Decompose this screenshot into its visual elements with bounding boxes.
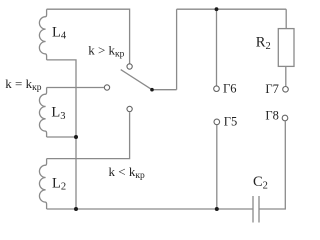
wire L3 bottom to bus junction bbox=[47, 136, 76, 138]
svg-text:Г7: Г7 bbox=[265, 82, 278, 96]
svg-text:L3: L3 bbox=[51, 105, 65, 122]
capacitor C2 right plate bbox=[258, 196, 260, 223]
svg-text:L2: L2 bbox=[52, 175, 66, 192]
svg-text:k > kкр: k > kкр bbox=[88, 43, 124, 60]
junction dot bus / bottom rail bbox=[74, 207, 78, 211]
wire k< contact down then left to L2 top (crosses bus, no junction) bbox=[47, 112, 130, 158]
terminal G5 circle bbox=[214, 119, 220, 125]
wire down to terminal G6 bbox=[216, 9, 218, 86]
wire L4 bottom to vertical bus and bus down bbox=[47, 60, 76, 209]
junction dot bottom rail / G5 bbox=[215, 207, 219, 211]
svg-text:Г8: Г8 bbox=[265, 109, 278, 123]
svg-text:Г5: Г5 bbox=[224, 115, 237, 129]
contact k> (circle) bbox=[127, 64, 132, 69]
inductor L4 bbox=[39, 9, 46, 60]
wire top-left horizontal (L4 top down to switch contact k>) bbox=[47, 9, 130, 63]
terminal G8 circle bbox=[282, 115, 288, 121]
switch arm (pivot to free end) bbox=[121, 70, 152, 90]
wire G5 down to bottom rail bbox=[216, 125, 218, 209]
svg-text:L4: L4 bbox=[52, 24, 67, 41]
wire bottom rail bbox=[47, 208, 253, 210]
junction dot switch pivot bbox=[150, 88, 154, 92]
junction dot bus / L3 bottom bbox=[74, 135, 78, 139]
inductor L3 bbox=[39, 88, 46, 138]
wire G8 down to capacitor branch bbox=[259, 121, 285, 209]
terminal G6 circle bbox=[214, 86, 220, 92]
wire pivot to right riser bbox=[152, 89, 177, 91]
svg-text:R2: R2 bbox=[256, 34, 271, 51]
wire R2 top lead bbox=[285, 9, 287, 28]
contact k< (circle) bbox=[127, 106, 132, 111]
svg-text:Г6: Г6 bbox=[223, 81, 236, 95]
capacitor C2 left plate bbox=[252, 196, 254, 223]
wire R2 bottom lead to G7 bbox=[285, 66, 287, 86]
svg-text:k < kкр: k < kкр bbox=[109, 164, 145, 181]
wire L3 top to k= contact bbox=[47, 87, 104, 89]
resistor R2 body bbox=[278, 29, 294, 67]
terminal G7 circle bbox=[283, 87, 289, 93]
svg-text:C2: C2 bbox=[253, 174, 268, 192]
wire top-right horizontal bbox=[177, 8, 287, 10]
junction dot top wire / G6 bbox=[215, 7, 219, 11]
wire riser up bbox=[176, 9, 178, 90]
svg-text:k = kкр: k = kкр bbox=[5, 76, 41, 93]
inductor L2 bbox=[39, 159, 46, 209]
contact k= (circle) bbox=[104, 85, 109, 90]
